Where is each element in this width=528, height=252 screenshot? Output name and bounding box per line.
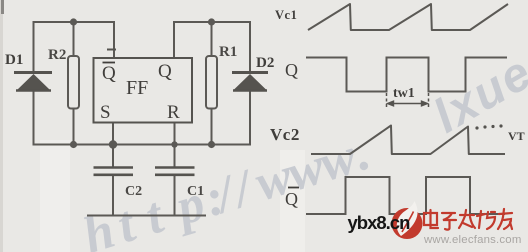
char zi [442, 213, 456, 230]
svg-text:Q: Q [102, 63, 116, 84]
svg-text:C1: C1 [187, 184, 204, 199]
junction dot bottom S/C2 [109, 140, 117, 148]
tw1 dimension arrow [388, 101, 428, 106]
wire top-left loop [34, 22, 115, 71]
svg-text:tw1: tw1 [393, 86, 415, 101]
tw1 dashed extension lines [387, 93, 429, 107]
junction dot top R1 [208, 18, 215, 25]
resistor R1 [206, 56, 217, 109]
svg-text:D2: D2 [256, 55, 274, 71]
svg-text:Q: Q [285, 60, 298, 80]
waveform Q [306, 58, 507, 92]
svg-text:R: R [167, 102, 180, 123]
waveform Qbar [306, 177, 505, 214]
waveform Vc1 sawtooth [308, 4, 508, 30]
capacitor C2 [94, 168, 134, 175]
waveform Vc2 sawtooth [311, 126, 505, 155]
wire R2 top branch [73, 22, 75, 57]
svg-text:D1: D1 [5, 52, 23, 68]
svg-text:C2: C2 [125, 184, 142, 199]
svg-text:www.elecfans.com: www.elecfans.com [423, 234, 522, 246]
overbar tick above Qbar wire [107, 49, 116, 51]
svg-text:Q: Q [285, 189, 298, 209]
svg-text:VT: VT [508, 129, 525, 143]
wire bottom rail [34, 89, 251, 145]
junction dot bottom R/C1 [171, 141, 177, 147]
junction dot bottom R2 [70, 141, 77, 148]
svg-text:R2: R2 [48, 47, 66, 63]
wire top-right loop [174, 22, 250, 71]
svg-text:Vc2: Vc2 [270, 125, 300, 144]
junction dot bottom R1 [208, 141, 215, 148]
char shao [477, 211, 495, 229]
wire C1 bottom [174, 175, 176, 216]
wire R2 bottom [73, 109, 75, 145]
svg-text:Q: Q [158, 61, 172, 82]
char dian [424, 210, 438, 228]
svg-text:ybx8.cn: ybx8.cn [348, 212, 411, 233]
wire R1 bottom [211, 109, 213, 145]
junction dot top R2 [70, 18, 77, 25]
pin label Qbar [102, 63, 116, 85]
resistor R2 [68, 56, 79, 109]
diode D2 [232, 73, 268, 91]
wire S pin to C2 [112, 123, 114, 168]
ground rail [88, 215, 205, 217]
diode D1 [14, 73, 52, 91]
svg-text:R1: R1 [219, 44, 237, 60]
label Qbar [285, 188, 299, 210]
svg-text:FF: FF [126, 77, 148, 99]
char fa [459, 210, 475, 228]
watermark http://www. [77, 124, 377, 252]
elecfans logo icon [392, 201, 423, 239]
ellipsis dots after Vc2 [475, 124, 502, 129]
flip-flop U1 box [94, 58, 193, 123]
wire R1 top branch [211, 22, 213, 57]
svg-text:S: S [100, 102, 111, 123]
svg-text:Vc1: Vc1 [275, 8, 297, 22]
elecfans logo text (stylized) [424, 209, 512, 230]
char you [498, 209, 512, 229]
wire C2 bottom [112, 175, 114, 216]
wire R pin to C1 [174, 123, 176, 168]
capacitor C1 [155, 168, 195, 175]
